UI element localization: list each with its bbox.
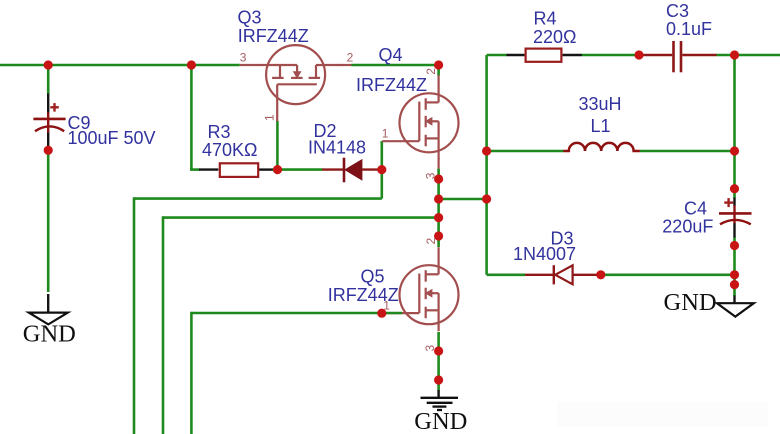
svg-text:1: 1	[383, 299, 390, 313]
svg-text:3: 3	[423, 345, 437, 352]
diode D2 triangle	[345, 160, 362, 180]
wire C4 bottom to GND	[733, 237, 736, 296]
capacitor C4 plus sign	[724, 198, 733, 207]
C4 GND stub	[733, 296, 735, 304]
junction riser / switch wire	[482, 194, 491, 203]
ground symbol left (triangle)	[29, 313, 68, 325]
capacitor C4 bottom plate arc	[720, 220, 751, 224]
R3 right black lead	[259, 168, 273, 170]
junction D2 anode node	[377, 165, 386, 174]
svg-text:1: 1	[382, 126, 389, 140]
wire right riser vertical	[485, 55, 488, 275]
junction C4 top pin	[730, 184, 739, 193]
diode D3 cathode bar	[553, 265, 555, 284]
wire D3 to output column	[601, 273, 735, 276]
svg-text:IN4148: IN4148	[308, 138, 366, 158]
inductor L1	[563, 143, 640, 151]
svg-text:220Ω: 220Ω	[533, 27, 577, 47]
junction output / L1 right	[730, 146, 739, 155]
wire rail Q3 drain to Q4 drain	[351, 64, 438, 67]
R4 right black lead	[563, 54, 582, 56]
wire switch node column	[437, 179, 440, 236]
wire junction to D2 cathode	[278, 168, 323, 171]
junction C9 bottom	[44, 146, 53, 155]
wire L1 right	[640, 150, 735, 153]
wire C9 bottom to GND	[47, 150, 50, 292]
diode D2 cathode bar	[343, 158, 346, 183]
svg-text:2: 2	[424, 238, 438, 245]
junction Q5 source pin	[434, 346, 443, 355]
capacitor C9 top plate	[33, 118, 65, 121]
transistor Q4	[382, 75, 458, 159]
watermark box bottom right	[557, 402, 768, 427]
R3 left black lead	[199, 168, 218, 170]
resistor R3 body	[220, 163, 258, 177]
C4 top black lead	[733, 198, 735, 206]
transistor Q5	[382, 247, 458, 331]
junction D3 anode	[596, 270, 605, 279]
diode D2 anode lead	[362, 168, 382, 170]
wire Q5 gate green over lead	[382, 312, 402, 315]
svg-text:C3: C3	[666, 1, 689, 21]
capacitor C9 bottom plate arc	[35, 126, 64, 131]
resistor R4 body	[526, 49, 562, 62]
junction riser / L1 left	[482, 146, 491, 155]
junction Q4 source pin	[434, 174, 443, 183]
svg-text:R3: R3	[208, 122, 231, 142]
wire R3 top drop vertical	[190, 65, 193, 170]
wire Q5 gate row	[191, 312, 381, 315]
junction output / D3	[730, 270, 739, 279]
junction rail / Q4 drain	[434, 60, 443, 69]
svg-text:IRFZ44Z: IRFZ44Z	[238, 26, 309, 46]
ground symbol right (triangle)	[717, 303, 754, 316]
wire Q4 source to switch node	[437, 169, 440, 179]
junction Q5 drain pin	[434, 231, 443, 240]
diode D3 triangle	[555, 265, 572, 284]
wire R4 to C3	[582, 54, 640, 57]
svg-text:R4: R4	[534, 9, 557, 29]
junction Q5 gate pin	[377, 309, 386, 318]
capacitor C3 right plate	[680, 41, 683, 72]
wire C9 top drop	[47, 65, 50, 94]
transistor Q4 source lead extension	[438, 158, 440, 169]
wire D3 row left	[487, 273, 525, 276]
capacitor C3 left plate	[672, 41, 675, 72]
svg-text:1N4007: 1N4007	[513, 244, 576, 264]
wire input rail left	[0, 64, 240, 67]
capacitor C9 red lead stub	[47, 112, 49, 132]
svg-text:3: 3	[240, 51, 247, 65]
svg-text:470KΩ: 470KΩ	[202, 140, 258, 160]
C9 bottom black lead	[47, 132, 49, 150]
junction feedback tap	[434, 213, 443, 222]
svg-text:3: 3	[424, 172, 438, 179]
junction C3 / output rail	[730, 50, 739, 59]
svg-text:220uF: 220uF	[662, 217, 713, 237]
wire Q5 gate drive vertical	[190, 312, 193, 434]
svg-text:2: 2	[347, 51, 354, 65]
diode D2 cathode lead	[322, 168, 344, 170]
junction Q5 source GND	[434, 375, 443, 384]
wire Q4 drain stub	[437, 65, 440, 76]
capacitor C3 right lead	[682, 54, 716, 56]
capacitor C4 top plate	[719, 212, 752, 215]
svg-text:C4: C4	[684, 198, 707, 218]
transistor Q3 source lead extension	[240, 64, 260, 66]
wire Q5 source	[437, 332, 440, 391]
svg-text:GND: GND	[414, 408, 467, 434]
svg-text:L1: L1	[591, 116, 611, 136]
junction switch node	[434, 194, 443, 203]
svg-text:100uF 50V: 100uF 50V	[68, 128, 156, 148]
ground symbol bottom (earth)	[421, 398, 459, 410]
wire output column upper	[733, 55, 736, 198]
junction output GND stub	[730, 280, 739, 289]
svg-text:1: 1	[262, 114, 276, 121]
wire C3 to output rail	[716, 54, 780, 57]
wire riser top to R4	[487, 54, 507, 57]
C9 top black lead	[47, 94, 49, 113]
wire R3 top drop elbow	[190, 168, 199, 171]
wire switch node to riser	[439, 198, 487, 201]
wire R3 to junction	[272, 168, 278, 171]
wire D2 anode node vertical	[380, 141, 383, 199]
diode D3 cathode lead	[525, 274, 554, 276]
svg-text:0.1uF: 0.1uF	[666, 19, 712, 39]
junction input rail / C9	[44, 60, 53, 69]
wire Q5 drain to switch node	[437, 236, 440, 247]
svg-text:IRFZ44Z: IRFZ44Z	[356, 75, 427, 95]
capacitor C3 left lead	[639, 54, 672, 56]
capacitor C4 red lead stub	[733, 205, 735, 223]
svg-text:Q4: Q4	[379, 45, 403, 65]
wire drive line vertical	[133, 197, 136, 434]
transistor Q3	[259, 45, 343, 121]
svg-text:GND: GND	[664, 289, 717, 316]
junction input rail / R3	[187, 60, 196, 69]
svg-text:Q5: Q5	[361, 267, 385, 287]
C9 GND stub	[47, 294, 49, 313]
svg-text:2: 2	[424, 68, 438, 75]
wire L1 left	[487, 150, 564, 153]
C4 bottom black lead	[733, 223, 735, 238]
junction C4 bottom pin	[730, 241, 739, 250]
R4 left black lead	[507, 54, 525, 56]
transistor Q3 drain lead extension	[342, 64, 352, 66]
svg-text:Q3: Q3	[238, 7, 262, 27]
diode D3 anode lead	[573, 274, 601, 276]
wire feedback line vertical	[162, 216, 165, 434]
wire feedback line horizontal	[163, 216, 439, 219]
capacitor C9 plus sign	[50, 103, 59, 112]
junction R3 / D2 / Q3 gate	[273, 165, 282, 174]
wire Q3 gate drop	[276, 121, 279, 170]
Q5 GND stub	[437, 390, 439, 398]
wire drive line horizontal	[134, 197, 382, 200]
junction R4 / C3	[634, 50, 643, 59]
svg-text:GND: GND	[23, 321, 76, 348]
svg-text:33uH: 33uH	[579, 94, 622, 114]
